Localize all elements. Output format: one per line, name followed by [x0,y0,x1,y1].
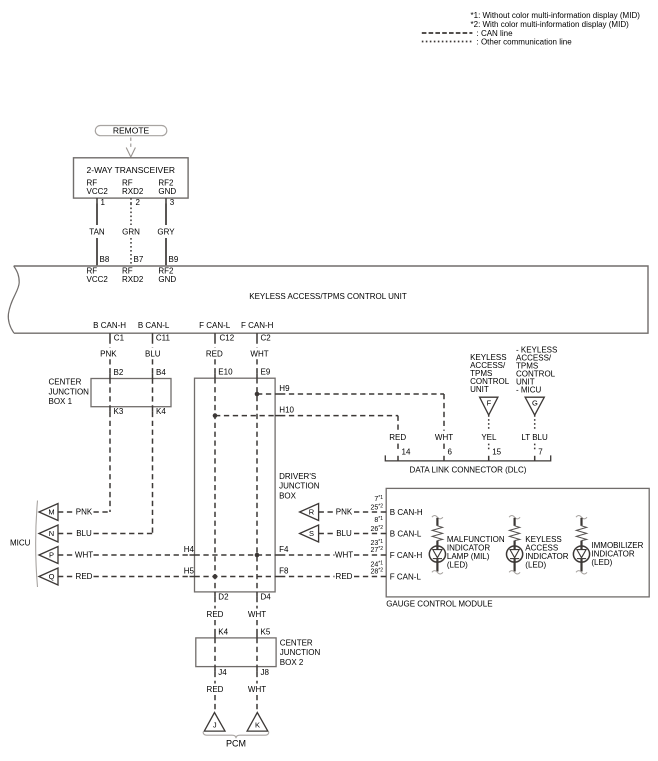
svg-text:B CAN-L: B CAN-L [390,529,422,538]
resistor of keyless access indicator [509,526,519,541]
svg-text:B CAN-H: B CAN-H [390,508,423,517]
svg-text:Q: Q [49,572,55,581]
svg-text:WHT: WHT [248,685,266,694]
pin J8 [256,667,258,672]
wire RED Q row [58,576,75,578]
lamp keyless access indicator: top lead [513,518,515,526]
svg-text:RED: RED [206,349,223,358]
junction dot WHT row [255,553,260,558]
svg-text:P: P [49,551,54,560]
svg-text:RF2: RF2 [158,266,174,275]
svg-text:B CAN-H: B CAN-H [93,321,126,330]
wire TAN [96,204,98,226]
svg-text:RXD2: RXD2 [122,187,144,196]
svg-text:C1: C1 [114,333,125,342]
LED cathode bar of MIL [433,558,442,560]
svg-text:TAN: TAN [89,227,105,236]
wire BLU N row [58,533,75,535]
svg-text:YEL: YEL [481,433,497,442]
PCM bracket [203,732,269,738]
pin H5 [190,576,195,578]
svg-text:WHT: WHT [248,610,266,619]
svg-text:KEYLESS ACCESS/TPMS CONTROL UN: KEYLESS ACCESS/TPMS CONTROL UNIT [249,292,407,301]
pin B4 [152,374,154,379]
pin E10 [214,373,216,378]
svg-text:K3: K3 [114,407,124,416]
svg-text:(LED): (LED) [525,560,546,569]
svg-text:JUNCTION: JUNCTION [49,387,90,396]
wire WHT vertical inside driver box [256,378,258,592]
svg-text:F: F [487,398,492,407]
junction dot RED row [213,574,218,579]
legend CAN line sample [422,32,473,34]
center junction box 2 [196,638,276,667]
lamp immobilizer indicator: top lead [580,518,582,526]
svg-text:S: S [309,529,314,538]
wire H9 branch to right [257,393,275,395]
connector K [247,713,268,732]
pin C1 [109,333,111,338]
svg-text:BLU: BLU [76,529,92,538]
pin H4 [190,554,195,556]
wire WHT J8 to PCM K [256,672,258,684]
svg-text:WHT: WHT [75,551,93,560]
wire PNK M row [58,511,75,513]
pin J4 [214,667,216,672]
svg-text:27*2: 27*2 [370,546,383,554]
wire RED inside CJB2 [214,638,216,667]
DLC pin 14 [397,456,399,461]
pin E9 [256,373,258,378]
svg-text:WHT: WHT [335,551,353,560]
LED circle of MIL [429,546,445,562]
svg-text:2: 2 [136,198,141,207]
svg-text:E10: E10 [218,368,233,377]
pin B2 [109,374,111,379]
svg-text:(LED): (LED) [447,560,468,569]
pin 3 [165,198,167,203]
pin C11 [152,333,154,338]
box torn left edge [8,266,19,333]
svg-text:RF: RF [122,266,133,275]
svg-text:B CAN-L: B CAN-L [138,321,170,330]
wire RED C12 to E10 [214,339,216,348]
svg-text:H9: H9 [279,384,290,393]
2-way transceiver box [74,158,189,198]
svg-text:B2: B2 [114,368,124,377]
center junction box 1 [91,379,171,407]
svg-text:C12: C12 [220,333,235,342]
lamp MIL: top lead [436,518,438,526]
svg-text:RF: RF [87,266,98,275]
svg-text:GRY: GRY [157,227,175,236]
svg-text:VCC2: VCC2 [87,275,109,284]
svg-text:K5: K5 [261,628,271,637]
wire WHT row inside driver box [195,554,276,556]
svg-text:E9: E9 [261,368,271,377]
LED circle of immobilizer indicator [573,546,589,562]
pin H9 [275,393,280,395]
svg-text:UNIT: UNIT [470,385,489,394]
DLC pin 7 [534,456,536,461]
svg-text:BOX 2: BOX 2 [280,658,304,667]
connector M [39,504,58,521]
svg-text:B4: B4 [156,368,166,377]
svg-text:LT BLU: LT BLU [521,433,548,442]
svg-text:F CAN-L: F CAN-L [390,572,422,581]
wire WHT F4 to gauge box [280,554,335,556]
svg-text:H10: H10 [279,406,294,415]
wire RED branch to DLC pin 14 [280,415,398,417]
svg-text:(LED): (LED) [591,558,612,567]
connector P [39,547,58,564]
wire PNK K3 down to MICU M row [109,412,111,512]
svg-text:PNK: PNK [100,349,117,358]
connector N [39,525,58,542]
wire PNK C1 to B2 [109,339,111,348]
lamp MIL: wire break squiggle top [432,516,443,519]
svg-text:R: R [309,508,315,517]
svg-text:M: M [48,508,54,517]
wire RED D2 to K4 [214,597,216,609]
svg-text:B9: B9 [169,255,179,264]
svg-text:BLU: BLU [145,349,161,358]
lamp keyless access indicator: wire break squiggle top [509,516,520,519]
pin D4 [256,592,258,597]
junction dot H9 branch [255,392,260,397]
svg-text:8*1: 8*1 [374,516,383,524]
svg-text:1: 1 [101,198,106,207]
pin 2 [130,198,132,203]
wire GRN [130,204,132,226]
wire WHT C2 to E9 [256,339,258,348]
svg-text:C2: C2 [261,333,272,342]
svg-text:*1: Without color multi-inform: *1: Without color multi-information disp… [471,11,641,20]
svg-text:G: G [532,398,538,407]
connector REMOTE [95,126,167,136]
svg-text:GND: GND [158,187,176,196]
svg-text:WHT: WHT [435,433,453,442]
LED cathode bar of immobilizer indicator [577,558,586,560]
wire RED J4 to PCM J [214,672,216,684]
resistor of immobilizer indicator [576,526,586,541]
lamp immobilizer indicator: wire break squiggle top [576,516,587,519]
svg-text:F CAN-H: F CAN-H [390,551,423,560]
lamp MIL: mid lead [436,541,438,547]
LED triangle of immobilizer indicator [577,550,586,558]
svg-text:F CAN-H: F CAN-H [241,321,274,330]
lamp keyless access indicator: wire through circle [513,546,515,549]
wire BLU S row [319,533,335,535]
connector Q [39,568,58,585]
svg-text:28*2: 28*2 [370,568,383,576]
svg-text:JUNCTION: JUNCTION [280,648,321,657]
lamp immobilizer indicator: wire through circle [580,546,582,549]
svg-text:RED: RED [207,610,224,619]
wire RED row inside driver box [195,576,276,578]
svg-text:J8: J8 [261,668,270,677]
svg-text:J4: J4 [218,668,227,677]
driver's junction box [195,378,276,592]
svg-text:RED: RED [207,685,224,694]
gauge pin F CAN-H [381,554,386,556]
LED triangle of MIL [433,550,442,558]
pin F4 [275,554,280,556]
svg-text:BOX: BOX [279,491,297,500]
wire LT BLU G to DLC pin 7 [534,415,536,431]
svg-text:PNK: PNK [336,508,353,517]
svg-text:- MICU: - MICU [516,386,542,395]
LED circle of keyless access indicator [506,546,522,562]
legend other communication line sample [422,41,473,43]
wire RED vertical inside driver box [214,378,216,592]
svg-text:B8: B8 [100,255,110,264]
svg-text:D4: D4 [261,593,272,602]
svg-text:GND: GND [158,275,176,284]
gauge pin F CAN-L [381,576,386,578]
gauge pin B CAN-H [381,511,386,513]
pin D2 [214,592,216,597]
svg-text:7*1: 7*1 [374,495,383,503]
pin K4 [152,407,154,412]
svg-text:RED: RED [389,433,406,442]
connector J [204,713,225,732]
svg-text:K4: K4 [156,407,166,416]
svg-text:JUNCTION: JUNCTION [279,482,320,491]
keyless access/TPMS control unit box [14,266,648,333]
pin K4 (CJB2) [214,633,216,638]
pin H10 [275,415,280,417]
svg-text:PCM: PCM [226,739,246,749]
connector R [300,504,319,521]
svg-text:F4: F4 [279,545,289,554]
gauge control module box [386,488,649,597]
wire remote to transceiver (dashed arrow) [130,138,132,149]
data link connector (DLC) bracket [385,455,550,461]
wire WHT P row [58,554,75,556]
svg-text:14: 14 [402,448,411,457]
svg-text:3: 3 [170,198,175,207]
svg-text:MICU: MICU [10,538,31,547]
resistor of MIL [432,526,442,541]
connector F [480,397,498,415]
wire RED F8 to gauge box [280,576,335,578]
wire BLU K4 down to MICU N row [152,412,154,534]
svg-text:D2: D2 [218,593,229,602]
svg-text:26*2: 26*2 [370,525,383,533]
lamp keyless access indicator: wire break squiggle bottom [509,571,520,574]
svg-text:2-WAY TRANSCEIVER: 2-WAY TRANSCEIVER [87,165,175,175]
lamp MIL: wire through circle [436,546,438,549]
svg-text:GRN: GRN [122,227,140,236]
wire WHT D4 to K5 [256,597,258,609]
LED triangle of keyless access indicator [510,550,519,558]
wire PNK R row [319,511,335,513]
svg-text:DRIVER'S: DRIVER'S [279,472,316,481]
arrowhead [126,148,135,158]
connector S [300,525,319,542]
wire YEL F to DLC pin 15 [488,415,490,431]
svg-text:N: N [49,529,54,538]
svg-text:VCC2: VCC2 [87,187,109,196]
svg-text:J: J [213,721,217,730]
svg-text:25*2: 25*2 [370,503,383,511]
svg-text:: Other communication line: : Other communication line [477,37,573,46]
pin F8 [275,576,280,578]
svg-text:7: 7 [538,448,543,457]
pin 1 [96,198,98,203]
svg-text:DATA LINK CONNECTOR (DLC): DATA LINK CONNECTOR (DLC) [410,466,527,475]
wire PNK inside CJB1 [109,379,111,407]
wire H10 branch to right [215,415,275,417]
lamp immobilizer indicator: mid lead [580,541,582,547]
wire WHT inside CJB2 [256,638,258,667]
wire BLU inside CJB1 [152,379,154,407]
lamp immobilizer indicator: wire break squiggle bottom [576,571,587,574]
svg-text:15: 15 [492,448,501,457]
lamp MIL: wire break squiggle bottom [432,571,443,574]
pin K5 [256,633,258,638]
wire WHT branch to DLC pin 6 [280,393,444,395]
svg-text:6: 6 [448,448,453,457]
svg-text:BLU: BLU [336,529,352,538]
DLC pin 6 [443,456,445,461]
svg-text:H4: H4 [184,545,195,554]
svg-text:F8: F8 [279,567,289,576]
svg-text:RED: RED [76,572,93,581]
svg-text:WHT: WHT [250,349,268,358]
connector G [525,397,544,415]
gauge pin B CAN-L [381,533,386,535]
pin C2 [256,333,258,338]
svg-text:PNK: PNK [76,508,93,517]
pin C12 [214,333,216,338]
svg-text:GAUGE CONTROL MODULE: GAUGE CONTROL MODULE [386,600,492,609]
svg-text:*2: With color multi-informati: *2: With color multi-information display… [471,20,630,29]
wire BLU C11 to B4 [152,339,154,348]
svg-text:RED: RED [336,572,353,581]
LED cathode bar of keyless access indicator [510,558,519,560]
svg-text:CENTER: CENTER [49,378,82,387]
pin K3 [109,407,111,412]
svg-text:K4: K4 [218,628,228,637]
svg-text:CENTER: CENTER [280,638,313,647]
svg-text:BOX 1: BOX 1 [49,397,73,406]
svg-text:F CAN-L: F CAN-L [199,321,231,330]
svg-text:REMOTE: REMOTE [113,126,150,136]
svg-text:B7: B7 [134,255,144,264]
svg-text:H5: H5 [184,567,195,576]
svg-text:K: K [255,721,260,730]
DLC pin 15 [488,456,490,461]
wire GRY [165,204,167,226]
svg-text:RXD2: RXD2 [122,275,144,284]
junction dot H10 branch [213,413,218,418]
MICU bracket [36,501,38,588]
svg-text:C11: C11 [156,333,171,342]
lamp keyless access indicator: mid lead [513,541,515,547]
